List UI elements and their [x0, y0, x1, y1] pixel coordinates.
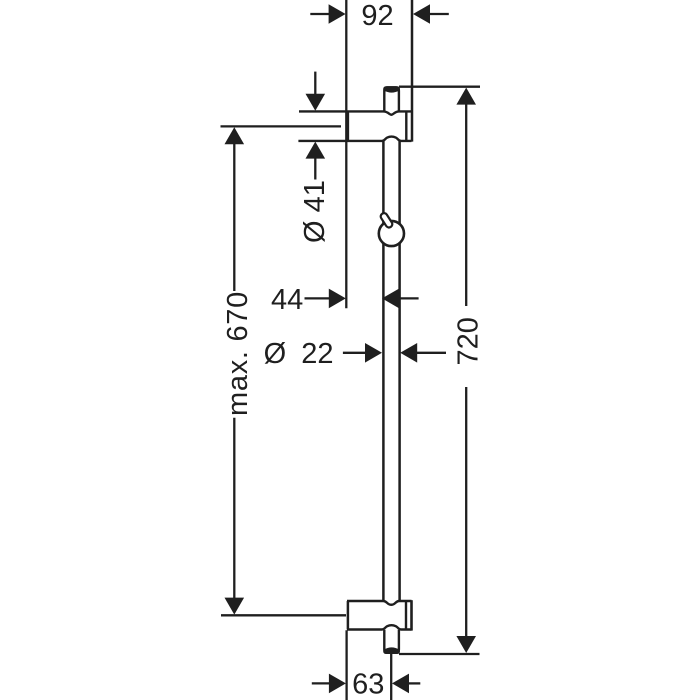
- dimension Ø22 arrows: [343, 352, 367, 354]
- svg-text:720: 720: [452, 317, 484, 365]
- slider knob circle: [379, 221, 404, 246]
- wall line / right extension of 92: [411, 0, 414, 142]
- dimension 63 arrows: [312, 682, 331, 684]
- extension line 63 right: [390, 654, 392, 700]
- top bracket stub cap: [383, 86, 400, 92]
- dimension Ø41 top arrow (down): [314, 72, 316, 95]
- svg-text:92: 92: [361, 0, 393, 32]
- top bracket bottom edge with bump over rail: [298, 137, 411, 141]
- top bracket wall plate inner line: [405, 111, 407, 140]
- reference line max.670 top: [221, 125, 342, 127]
- reference line 720 top: [399, 86, 480, 88]
- bottom bracket stub below holder: [384, 630, 399, 653]
- bottom bracket wall plate inner line: [405, 601, 407, 630]
- top bracket stub above holder: [384, 87, 399, 111]
- dimension Ø41 bottom arrow (up): [314, 157, 316, 180]
- extension line 63 left: [345, 630, 347, 700]
- bottom bracket wall plate outer edge: [410, 600, 413, 630]
- dimension max.670 line with arrows: [233, 143, 235, 291]
- dimension 92 right arrow: [429, 13, 449, 15]
- top bracket front (left) edge: [347, 111, 350, 140]
- bottom bracket top edge with dip at rail: [347, 601, 412, 605]
- svg-text:Ø: Ø: [264, 338, 287, 370]
- dimension 44 arrows: [305, 297, 331, 299]
- bottom stub end cap: [383, 647, 400, 654]
- reference line 720 bottom: [399, 653, 480, 655]
- slider hook lever: [379, 212, 393, 229]
- rail tube right edge: [398, 140, 401, 601]
- svg-text:44: 44: [271, 284, 303, 316]
- reference line max.670 bottom: [221, 614, 346, 616]
- rail tube left edge: [382, 140, 385, 601]
- svg-text:63: 63: [352, 669, 384, 700]
- svg-text:max. 670: max. 670: [222, 291, 254, 416]
- svg-text:Ø 41: Ø 41: [299, 180, 331, 243]
- extension line left of 92 (front face), from top edge down past 44 arrow: [345, 0, 347, 308]
- bottom bracket bottom edge with bump over stub: [347, 625, 412, 629]
- top bracket top edge with saddle at rail: [299, 111, 412, 114]
- bottom bracket front (left) edge: [347, 601, 350, 630]
- dimension 720 line with arrows: [465, 103, 467, 306]
- dimension 92 left arrow: [310, 13, 330, 15]
- svg-text:22: 22: [301, 338, 333, 370]
